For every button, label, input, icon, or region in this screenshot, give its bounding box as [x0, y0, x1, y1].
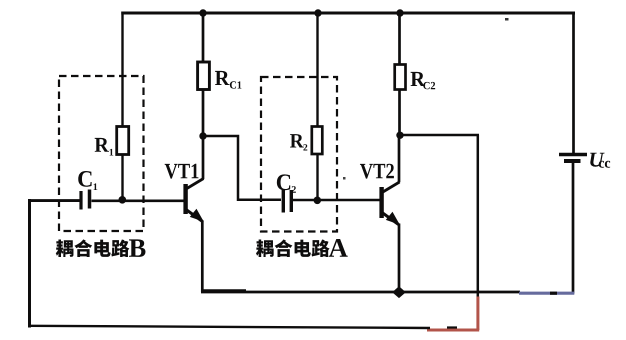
wire VT1 emitter lead	[201, 221, 204, 293]
wire R2 branch upper	[316, 13, 318, 127]
wire RC1 branch upper	[202, 13, 205, 63]
wire RC1 branch lower to VT1 collector	[202, 90, 205, 138]
wire VT2 collector lead	[398, 135, 401, 182]
wire feedback drop black upper part	[477, 135, 480, 297]
battery Ucc negative plate	[564, 159, 581, 163]
label VT2	[360, 164, 394, 179]
wire R1 branch upper	[121, 12, 123, 128]
node junction dot top rail at RC1	[199, 9, 206, 16]
wire emitter rail black dash over blue segment	[550, 292, 557, 295]
label R1	[95, 138, 114, 156]
label RC1	[215, 71, 241, 89]
wire left riser to C1 left plate	[28, 199, 80, 202]
wire emitter ground rail	[201, 291, 520, 294]
wire top supply rail	[121, 12, 575, 15]
node junction dot top rail at R2	[314, 9, 321, 16]
capacitor C1 right plate	[88, 190, 92, 209]
transistor VT1 emitter stroke with arrow	[186, 209, 204, 222]
resistor RC1	[198, 62, 210, 90]
node junction dot top rail at RC2	[396, 9, 403, 16]
node junction diamond VT2 emitter on ground rail	[392, 286, 406, 298]
wire emitter rail blue-tinted segment	[519, 292, 574, 295]
transistor VT2 collector stroke	[382, 182, 400, 193]
label coupling circuit B (耦合电路B)	[56, 239, 146, 257]
resistor R1	[117, 127, 129, 155]
scan speck near VT2	[343, 177, 346, 180]
wire emitter ground rail thick left portion	[202, 289, 246, 292]
scan speck top right	[505, 18, 509, 21]
label coupling circuit A (耦合电路A)	[256, 239, 348, 257]
transistor VT1 base bar	[183, 184, 187, 214]
label R2	[290, 134, 307, 150]
capacitor C2 left plate	[282, 190, 285, 213]
capacitor C2 right plate	[290, 190, 293, 212]
wire bottom feedback rail	[29, 326, 430, 328]
node junction dot R1 to base wire of VT1	[119, 196, 127, 204]
transistor VT1 collector stroke	[186, 179, 204, 190]
wire battery negative to ground rail	[572, 162, 575, 294]
wire VT2 emitter lead	[398, 224, 401, 293]
node junction dot VT1 collector	[199, 132, 206, 139]
wire RC2 branch lower to VT2 collector	[398, 90, 401, 137]
capacitor C1 left plate	[79, 191, 82, 210]
wire VT1 collector to C2 left plate	[203, 136, 281, 200]
label RC2	[411, 72, 436, 89]
label C2	[277, 174, 296, 192]
transistor VT2 emitter stroke with arrow	[382, 212, 400, 225]
resistor R2	[312, 127, 323, 155]
wire VT1 collector lead	[202, 136, 205, 179]
wire RC2 branch upper	[398, 13, 401, 65]
node junction dot R2 to base wire of VT2	[314, 197, 322, 205]
transistor VT2 base bar	[379, 187, 383, 218]
wire right supply drop to battery positive	[572, 13, 575, 154]
battery Ucc positive plate	[559, 153, 587, 156]
wire R2 branch lower	[316, 154, 318, 200]
wire VT2 collector to feedback drop	[400, 134, 480, 137]
coupling box B dashed outline	[59, 76, 144, 231]
wire left feedback riser	[28, 199, 31, 328]
wire feedback drop red lower part	[476, 297, 479, 331]
node junction dot VT2 collector	[396, 132, 403, 139]
label C1	[78, 171, 97, 190]
resistor RC2	[395, 65, 406, 90]
wire R1 branch lower	[121, 155, 123, 201]
label VT1	[165, 164, 199, 179]
coupling box A dashed outline	[261, 77, 337, 232]
wire bottom feedback rail red segment	[427, 329, 479, 332]
wire bottom feedback rail black tick near red	[447, 326, 457, 328]
label Ucc	[590, 153, 610, 168]
wire C2 to VT2 base	[293, 199, 380, 202]
wire C1 to VT1 base	[92, 200, 185, 203]
